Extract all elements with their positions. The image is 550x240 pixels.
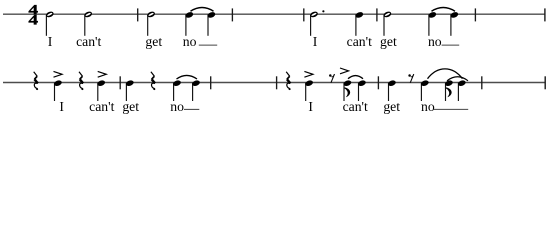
- barline m5/m6 row 1: [474, 8, 476, 21]
- tie no3-no4 row 1: [432, 8, 456, 12]
- note dotted half "I" m4: [309, 10, 324, 36]
- note quarter "can't" n2 m4 row 2: [357, 79, 366, 101]
- accent on "can't" m4 row 2: [340, 68, 349, 74]
- svg-text:get: get: [145, 34, 162, 49]
- melisma line 2 row 2: [434, 108, 468, 110]
- svg-text:no: no: [421, 99, 435, 114]
- svg-text:get: get: [122, 99, 139, 114]
- barline m2/m3 row 1: [231, 8, 233, 21]
- barline m4/m5 row 2: [377, 76, 379, 89]
- final barline row 2: [544, 76, 546, 89]
- barline m4/m5 row 1: [376, 8, 378, 21]
- svg-text:get: get: [380, 34, 397, 49]
- barline m3/m4 row 2: [276, 76, 278, 89]
- note quarter "no" n1 m5 row 2: [420, 79, 429, 101]
- tie no1-no2 row 2: [177, 75, 198, 79]
- note eighth "no" n2 m5 row 2 (flagged): [444, 79, 453, 101]
- quarter rest 1 row 2: [34, 72, 38, 90]
- tie no1-no2 row 1: [191, 8, 214, 12]
- svg-text:can't: can't: [343, 99, 368, 114]
- note quarter "can't" m4: [355, 11, 364, 36]
- melisma line 1 row 1: [199, 44, 217, 46]
- svg-text:I: I: [308, 99, 313, 114]
- note quarter "no" 2 m2: [207, 11, 216, 36]
- note half "I" m1: [45, 11, 54, 36]
- note quarter "no" 4 m5: [450, 11, 459, 36]
- barline m3/m4 row 1: [303, 8, 305, 21]
- eighth rest 1 row 2: [329, 74, 334, 83]
- svg-text:4: 4: [28, 11, 38, 27]
- note quarter "no" 3 m5: [428, 11, 437, 36]
- barline m2/m3 row 2: [210, 76, 212, 89]
- svg-text:get: get: [383, 99, 400, 114]
- note quarter "I" m4 row 2: [304, 79, 313, 101]
- note quarter "I" m1 row 2: [53, 79, 62, 101]
- tie no n2-n3 row 2: [447, 77, 468, 81]
- svg-text:can't: can't: [347, 34, 372, 49]
- note quarter "no" n3 m5 row 2: [457, 79, 466, 101]
- barline m1/m2 row 2: [119, 76, 121, 89]
- note half "can't" m1: [84, 11, 93, 36]
- accent on "I" m4 row 2: [304, 71, 313, 77]
- accent on "can't" m1 row 2: [98, 71, 107, 77]
- eighth rest 2 row 2: [408, 74, 413, 83]
- melisma line 1 row 2: [184, 108, 199, 110]
- note quarter "no" 1 m2 row 2: [172, 79, 181, 101]
- melisma line 2 row 1: [442, 44, 460, 46]
- note eighth "can't" n1 m4 row 2 (flagged): [343, 79, 352, 101]
- svg-text:I: I: [48, 34, 53, 49]
- note quarter "can't" m1 row 2: [97, 79, 106, 101]
- tie can't n1-n2 row 2: [348, 76, 363, 79]
- staff line row 1: [3, 13, 545, 15]
- svg-text:I: I: [313, 34, 318, 49]
- svg-text:no: no: [183, 34, 197, 49]
- quarter rest 2 row 2: [79, 72, 83, 90]
- svg-text:can't: can't: [76, 34, 101, 49]
- svg-text:I: I: [59, 99, 64, 114]
- barline m1/m2 row 1: [137, 8, 139, 21]
- note quarter "no" 1 m2: [185, 11, 194, 36]
- slur no n1-n3 row 2: [428, 69, 463, 79]
- svg-text:no: no: [428, 34, 442, 49]
- note quarter "get" m5 row 2: [387, 79, 396, 101]
- barline m5/m6 row 2: [481, 76, 483, 89]
- svg-text:no: no: [170, 99, 184, 114]
- staff line row 2: [3, 82, 545, 84]
- note quarter "get" m2 row 2: [125, 79, 134, 101]
- note quarter "no" 2 m2 row 2: [191, 79, 200, 101]
- quarter rest 4 row 2: [286, 72, 290, 90]
- note half "get" m5: [383, 11, 392, 36]
- final barline row 1: [544, 8, 546, 21]
- quarter rest 3 row 2: [151, 72, 155, 90]
- time signature 4/4: [28, 2, 38, 28]
- accent on "I" m1 row 2: [54, 71, 63, 77]
- svg-text:can't: can't: [89, 99, 114, 114]
- note half "get" m2: [146, 11, 155, 36]
